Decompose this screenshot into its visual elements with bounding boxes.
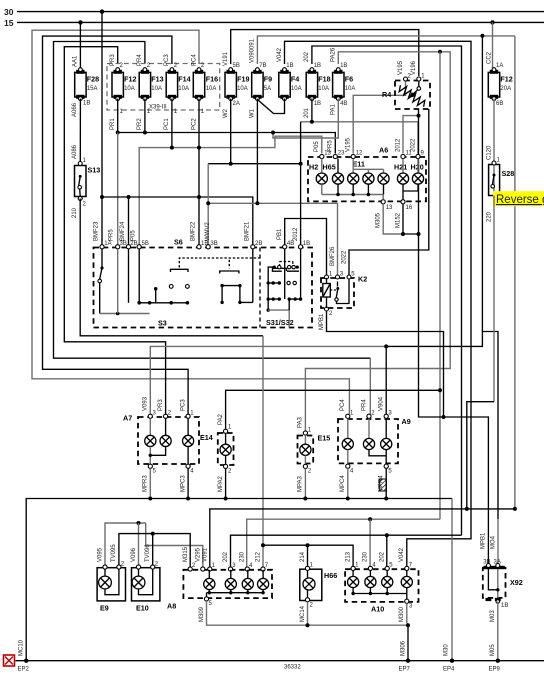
wire PC1: F14 bottom to P05 line — [171, 99, 173, 148]
svg-text:36332: 36332 — [284, 665, 301, 671]
svg-text:2A: 2A — [233, 101, 240, 107]
svg-text:V191: V191 — [223, 51, 229, 66]
wire E10 pin2 riser — [152, 534, 154, 566]
E15 pin 2 — [303, 464, 307, 468]
fuse F14 10A — [164, 54, 190, 130]
svg-text:3A: 3A — [494, 560, 501, 566]
wire V09 lamp feed line gray — [105, 523, 146, 566]
svg-text:PR1: PR1 — [110, 118, 116, 130]
svg-text:V093: V093 — [143, 396, 149, 411]
wire 230 line: from PA gray down to A8 pin4 — [247, 519, 440, 567]
svg-text:PC4: PC4 — [340, 399, 346, 411]
A8 lamp 1 — [204, 570, 215, 593]
wire PR4 net: F13 top loop to A9 pin2 via left side — [54, 42, 371, 359]
A7 pin 1 — [186, 414, 190, 418]
lamp H2 — [309, 159, 327, 195]
A10 lamp 4 — [401, 571, 412, 594]
wire PA2: branch down to E14 pin1 — [439, 52, 441, 519]
svg-text:M300: M300 — [399, 606, 405, 622]
A6 pin 11 — [401, 154, 405, 158]
A8 pin 5 bottom — [204, 597, 208, 601]
svg-text:BMF21: BMF21 — [244, 221, 250, 241]
svg-text:A066: A066 — [72, 102, 78, 117]
junction 230/A10 pin4 — [368, 517, 372, 521]
svg-text:X92: X92 — [510, 578, 523, 587]
svg-text:TV095: TV095 — [111, 544, 117, 562]
wire 210 gray drop to A8 pin 7 — [262, 336, 264, 567]
svg-text:A8: A8 — [167, 602, 176, 611]
A10 lamp 1 — [348, 571, 359, 594]
svg-text:7B: 7B — [259, 63, 266, 69]
wire 2012: A6 pin11 riser to R4 output line — [403, 116, 419, 154]
svg-text:1B: 1B — [314, 101, 321, 107]
junction on bus 15 at x=80.5 — [78, 20, 82, 24]
ground marker box EP2 — [4, 655, 15, 666]
wire MPR3 — [143, 468, 151, 498]
wire 210/214: S13 to H66 via left loop — [72, 199, 263, 568]
svg-text:10A: 10A — [206, 86, 217, 92]
svg-text:230: 230 — [363, 551, 369, 562]
wire PC2/BMF22: F16 bottom down to S5 pin 1B — [198, 99, 200, 246]
junction on gray right edge — [513, 507, 517, 511]
K2 contact — [330, 279, 349, 304]
svg-text:PR2: PR2 — [137, 118, 143, 130]
svg-text:214: 214 — [300, 551, 306, 562]
A6 pin 16 bottom M152 — [401, 200, 405, 204]
svg-text:10A: 10A — [318, 86, 329, 92]
svg-text:15: 15 — [4, 18, 14, 28]
wire M306 to EP7 — [400, 623, 410, 661]
svg-text:2022: 2022 — [410, 138, 416, 152]
wire V195: A6 pin12 to R4 pin2, gray — [353, 80, 405, 154]
wire 2012 gray east to A6 pin 9 — [301, 122, 418, 154]
S3 rotor contact — [171, 258, 263, 272]
svg-text:PR3: PR3 — [158, 399, 164, 411]
A9 pin 4 bottom — [346, 464, 350, 468]
svg-text:10A: 10A — [151, 86, 162, 92]
svg-text:PC3: PC3 — [180, 399, 186, 411]
fuse F19 10A — [223, 51, 249, 118]
wire M03/M05 to EP9 — [490, 602, 498, 661]
svg-text:H66: H66 — [324, 571, 337, 580]
svg-text:F9: F9 — [264, 75, 272, 84]
svg-text:A10: A10 — [371, 605, 384, 614]
svg-text:5A: 5A — [264, 86, 271, 92]
junction on bus 30 at x=102 — [100, 9, 104, 13]
A7 pin 3 — [148, 414, 152, 418]
svg-text:F19: F19 — [237, 75, 249, 84]
fog lamp E14 — [200, 433, 234, 465]
svg-text:10A: 10A — [124, 86, 135, 92]
E10 lamp — [132, 569, 153, 595]
wire P05: S5 pin 5B to A6 pin 13, gray — [139, 136, 322, 245]
junction E10 pin1 — [137, 521, 141, 525]
svg-text:F4: F4 — [291, 75, 299, 84]
svg-text:W1: W1 — [250, 108, 256, 118]
junction BMF23 — [100, 195, 104, 199]
svg-text:212: 212 — [255, 551, 261, 562]
wire BMF24/BMF21 line y197 — [102, 197, 253, 246]
svg-text:10A: 10A — [237, 86, 248, 92]
svg-text:S6: S6 — [174, 238, 183, 247]
svg-text:P05: P05 — [314, 141, 320, 152]
svg-text:V042: V042 — [399, 547, 405, 562]
junction PA2 on gray 440 — [438, 388, 442, 392]
wire MO4 gray to X92 pin 3A — [497, 519, 499, 566]
A10 pin 3 bottom — [405, 599, 409, 603]
S31 left riser — [268, 267, 274, 310]
svg-text:V195: V195 — [398, 60, 404, 75]
wire 202: F18 top to right side drop to A10 pin5 — [312, 46, 462, 535]
fuse F12 10A — [110, 54, 136, 130]
svg-text:PA2: PA2 — [218, 413, 224, 425]
svg-text:3B: 3B — [210, 241, 217, 247]
A9 lamp 2 — [363, 418, 386, 455]
svg-text:H20: H20 — [411, 163, 424, 172]
svg-text:MO4: MO4 — [491, 535, 497, 549]
connector X92 — [483, 566, 523, 598]
S5 pin 1A — [100, 245, 104, 249]
svg-text:M30: M30 — [444, 644, 450, 656]
wire A10 pin4 riser — [369, 519, 371, 566]
E14 lamp — [220, 433, 231, 465]
svg-text:E10: E10 — [136, 604, 149, 613]
K2 pin 5 — [347, 275, 351, 279]
svg-text:PR5: PR5 — [109, 229, 115, 241]
svg-text:2012: 2012 — [395, 138, 401, 152]
svg-text:5B: 5B — [142, 241, 149, 247]
wire gray right edge long drop from V090091 line — [514, 36, 516, 508]
E15 pin 1 — [303, 431, 307, 435]
X92 pin 3B — [486, 564, 490, 568]
wire PA26: F6 top to right side, gray — [305, 52, 450, 431]
wire PA1: F6 bottom step joining PR5 line — [273, 99, 338, 138]
ground EP9 — [496, 659, 500, 663]
A10 pin 5 — [385, 566, 389, 570]
svg-text:F28: F28 — [87, 75, 99, 84]
junction E10 pin2 — [151, 532, 155, 536]
wire M315 line: E9 E10 pin2 to A8 left pin — [119, 534, 190, 567]
svg-text:MPC4: MPC4 — [340, 475, 346, 492]
svg-text:1A: 1A — [496, 63, 503, 69]
svg-text:BMF22: BMF22 — [191, 221, 197, 241]
S31 pin1B internal drop — [300, 249, 302, 299]
svg-text:H21: H21 — [394, 163, 407, 172]
splice symbol on MPR4 — [379, 479, 386, 491]
svg-text:R4: R4 — [382, 90, 391, 99]
svg-text:PC3: PC3 — [164, 54, 170, 66]
wire V042: F4 top to right side drop to A10 pin7 — [285, 41, 472, 566]
S5 pin 1B third — [299, 245, 303, 249]
wire 213/214 line from 210 net — [263, 545, 353, 566]
svg-text:M315: M315 — [183, 546, 189, 562]
junction on bus 15 at x=490.6 — [490, 20, 494, 24]
ground EP2 — [24, 659, 28, 663]
A7 lamp 3 — [183, 418, 194, 464]
svg-text:P05: P05 — [131, 230, 137, 241]
S5 pin 3B — [116, 245, 120, 249]
X92 pin 3A — [496, 564, 500, 568]
svg-text:V904: V904 — [379, 396, 385, 411]
svg-text:W2: W2 — [223, 108, 229, 118]
relay K2 — [321, 275, 367, 309]
junction WWV2 on gray line — [206, 201, 210, 205]
rear fog lamp H66 — [300, 569, 337, 600]
A6 pin 9 — [416, 154, 420, 158]
switch S13 — [75, 158, 101, 208]
lamp H65 — [323, 159, 344, 195]
S31 top row contacts — [272, 265, 299, 271]
svg-text:M03: M03 — [490, 610, 496, 622]
svg-text:1B: 1B — [314, 63, 321, 69]
wire M305: A6 ground gray — [376, 195, 404, 235]
side lamp E10 — [132, 568, 160, 613]
fuse F4 10A — [277, 47, 302, 100]
wire M309: A8 ground — [199, 601, 408, 625]
ground line to EP2 — [19, 499, 453, 661]
svg-text:E11: E11 — [353, 160, 365, 169]
wire MPC3 — [180, 468, 188, 498]
rear lamp unit A9 — [338, 417, 411, 463]
S5 pin 4B — [283, 245, 287, 249]
K2 pin 3 — [336, 275, 340, 279]
svg-text:H2: H2 — [309, 163, 318, 172]
svg-text:213: 213 — [345, 551, 351, 562]
A10 pin 4 — [368, 566, 372, 570]
S5 pin 3B second — [206, 245, 210, 249]
svg-text:30: 30 — [4, 7, 14, 17]
fuse F9 5A — [250, 38, 272, 118]
svg-text:E9: E9 — [100, 604, 109, 613]
A8 lamp 4 — [258, 570, 269, 593]
svg-text:V042: V042 — [277, 47, 283, 62]
side lamp E9 — [97, 568, 125, 613]
A6 pin 13 bottom M305 — [381, 200, 385, 204]
svg-text:1B: 1B — [286, 63, 293, 69]
wire MC14 — [300, 602, 308, 625]
svg-text:H65: H65 — [323, 163, 336, 172]
S5 pin 5B — [137, 245, 141, 249]
rear lamp unit A7 — [123, 414, 199, 465]
svg-text:Reverse g: Reverse g — [496, 194, 544, 206]
svg-text:PB1: PB1 — [277, 228, 283, 240]
svg-text:6B: 6B — [496, 101, 503, 107]
svg-text:PC4: PC4 — [191, 54, 197, 66]
svg-text:1B: 1B — [303, 241, 310, 247]
K2 pin 2 — [325, 307, 329, 311]
wire MPA3 — [298, 469, 306, 499]
svg-text:MPB1: MPB1 — [481, 532, 487, 549]
lamp unit A10 — [345, 569, 418, 613]
wire PR5 line: F12/F13 bottoms to A6 pin 23 — [118, 99, 336, 154]
svg-text:MPB1: MPB1 — [319, 313, 325, 330]
svg-text:202: 202 — [380, 551, 386, 562]
junction lamp H65 on bus — [336, 193, 340, 197]
svg-text:S28: S28 — [502, 169, 515, 178]
ground rail — [16, 660, 544, 662]
junction 2012 on R4 line — [417, 114, 421, 118]
wire CC2: bus15 to F12b top — [492, 22, 494, 68]
A10 lamp 2 — [365, 571, 376, 594]
wire W1: F9 bottom long drop — [256, 99, 258, 204]
svg-text:F6: F6 — [345, 75, 353, 84]
wire M152: A6 ground black — [395, 204, 403, 234]
svg-text:M305: M305 — [376, 212, 382, 228]
junction 3B internal — [116, 312, 120, 316]
lamps E11 — [348, 159, 390, 195]
svg-text:12: 12 — [356, 151, 363, 157]
S31 mid row — [267, 281, 297, 284]
svg-text:MPA2: MPA2 — [218, 475, 224, 492]
wire MPA2 — [218, 469, 226, 499]
A9 pin 2 — [367, 414, 371, 418]
lamp H21 — [394, 159, 409, 192]
A9 lamp 3 — [381, 418, 392, 464]
junction 214 H66 riser — [306, 543, 310, 547]
box X39-III fuse holder — [107, 64, 220, 111]
svg-text:20A: 20A — [500, 86, 511, 92]
X92 bottom tabs — [486, 598, 492, 601]
svg-text:F12: F12 — [124, 75, 136, 84]
wire PC3 net: F14 top loop to A7 pin1 via left side — [43, 36, 189, 414]
svg-text:V091: V091 — [203, 547, 209, 562]
wire V904 branch to A9 pin3 — [385, 346, 387, 414]
A8 pin 2 — [188, 567, 192, 571]
A10 pin 1 — [351, 566, 355, 570]
wire PR4 riser to A9 pin2 — [369, 358, 371, 414]
instrument cluster A6 — [308, 146, 426, 202]
fuse F13 10A — [137, 54, 163, 130]
svg-text:3B: 3B — [483, 560, 490, 566]
bus 30 — [17, 11, 544, 13]
junction BMF22 on BMF line — [197, 195, 201, 199]
svg-text:2B: 2B — [255, 241, 262, 247]
wire WWV2/BMF26 gray line to K2 pin 3 — [208, 203, 337, 275]
wire PB1: S5 pin 4B to K2 pin 1 — [285, 219, 327, 276]
svg-text:M306: M306 — [400, 640, 406, 656]
H66 pin 2 — [305, 598, 309, 602]
fuse F28 15A — [75, 68, 99, 107]
wire 220: S28 to bottom link — [467, 196, 494, 508]
fuse F18 10A — [304, 51, 330, 118]
junction PA26/PA2 branch — [438, 50, 442, 54]
S6 contact grid — [220, 249, 252, 304]
S3 stationary contacts — [169, 285, 173, 289]
junction 202/A10 pin5 — [385, 533, 389, 537]
fuse F16 10A — [191, 54, 218, 130]
A8 pin 3 — [228, 567, 232, 571]
svg-text:V196: V196 — [411, 60, 417, 75]
svg-text:PC1: PC1 — [164, 118, 170, 130]
S5 pin 2B second — [251, 245, 255, 249]
junction V904 — [384, 344, 388, 348]
svg-text:2012: 2012 — [293, 227, 299, 241]
svg-text:X39-III: X39-III — [149, 105, 167, 111]
svg-text:2B: 2B — [130, 241, 137, 247]
ground EP4 — [450, 659, 454, 663]
A8 lamp 2 — [225, 570, 236, 593]
svg-text:TV096: TV096 — [145, 544, 151, 562]
S5 pin 1B — [197, 245, 201, 249]
S3 internal 2B stub — [128, 249, 130, 303]
svg-text:MC10: MC10 — [19, 639, 25, 656]
svg-text:202: 202 — [223, 551, 229, 562]
svg-text:1A: 1A — [104, 241, 111, 247]
junction R4 line with ground — [417, 232, 421, 236]
junction W1 on gray line — [255, 201, 259, 205]
A10 internal bus — [351, 592, 406, 600]
junction PA1 — [271, 131, 275, 135]
A6 pin 12 — [351, 154, 355, 158]
svg-text:1B: 1B — [340, 63, 347, 69]
svg-text:S13: S13 — [88, 166, 101, 175]
svg-text:WWV2: WWV2 — [205, 222, 211, 241]
svg-text:A6: A6 — [379, 146, 388, 155]
svg-text:PR4: PR4 — [361, 399, 367, 411]
E9 pin 2 — [117, 565, 121, 569]
svg-text:PR3: PR3 — [110, 54, 116, 66]
E10 pin 2 — [151, 565, 155, 569]
junction BMF24 — [127, 195, 131, 199]
E15 lamp — [300, 435, 311, 465]
A9 pin 1 — [346, 414, 350, 418]
A7 lamp 2 — [149, 418, 172, 457]
S31 gray exit — [267, 299, 290, 327]
E14 pin 1 — [224, 429, 228, 433]
svg-text:202: 202 — [304, 51, 310, 62]
switch unit S5 box — [94, 238, 313, 328]
A6 pin 13 — [320, 154, 324, 158]
junction PR2 — [143, 131, 147, 135]
svg-text:V295: V295 — [195, 547, 201, 562]
A7 lamp 1 — [145, 418, 156, 464]
H66 lamp — [303, 571, 315, 599]
wire V090091: F9 top to right side drop — [257, 36, 515, 64]
S3 internal 3B drop — [117, 249, 119, 314]
wire V09 feed: gray drop from V090091 to tail lamp line — [386, 36, 482, 347]
wire PR3 net: F12 top loop to A7 pin2 via left side — [64, 47, 165, 414]
wire BMF23: bus30 drop to S5 pin 1A — [101, 12, 103, 246]
wire E10 pin1 riser — [138, 523, 140, 566]
wire ground M152/M305 to EP4 — [403, 234, 488, 566]
svg-text:EP9: EP9 — [489, 667, 501, 673]
lamp unit A8 — [167, 570, 272, 611]
svg-text:S3: S3 — [158, 319, 167, 328]
junction E11 lamps on bus — [351, 193, 355, 197]
svg-text:E15: E15 — [318, 434, 331, 443]
svg-text:1B: 1B — [501, 603, 508, 609]
E9 pin 1 — [103, 565, 107, 569]
wire H66 riser — [307, 545, 309, 566]
svg-text:15A: 15A — [87, 86, 98, 92]
wire 2012 riser to S5 pin 1B third — [300, 122, 302, 246]
svg-text:F12: F12 — [500, 75, 512, 84]
svg-text:10A: 10A — [291, 86, 302, 92]
svg-text:MC14: MC14 — [300, 605, 306, 622]
svg-text:4B: 4B — [340, 101, 347, 107]
svg-text:A7: A7 — [123, 414, 132, 423]
svg-text:3B: 3B — [120, 241, 127, 247]
svg-text:13: 13 — [386, 205, 393, 211]
svg-text:E14: E14 — [200, 433, 213, 442]
svg-text:A9: A9 — [402, 417, 411, 426]
svg-text:210: 210 — [72, 207, 78, 218]
svg-text:M152: M152 — [395, 212, 401, 228]
wire MPC4 — [340, 468, 348, 498]
wire WWV2 riser to S5 pin 3B second — [207, 164, 209, 246]
wire W2: F19 bottom to S5 pin 3B second — [208, 99, 300, 164]
wire PR5 drop to S5 pin 3B — [117, 133, 119, 246]
